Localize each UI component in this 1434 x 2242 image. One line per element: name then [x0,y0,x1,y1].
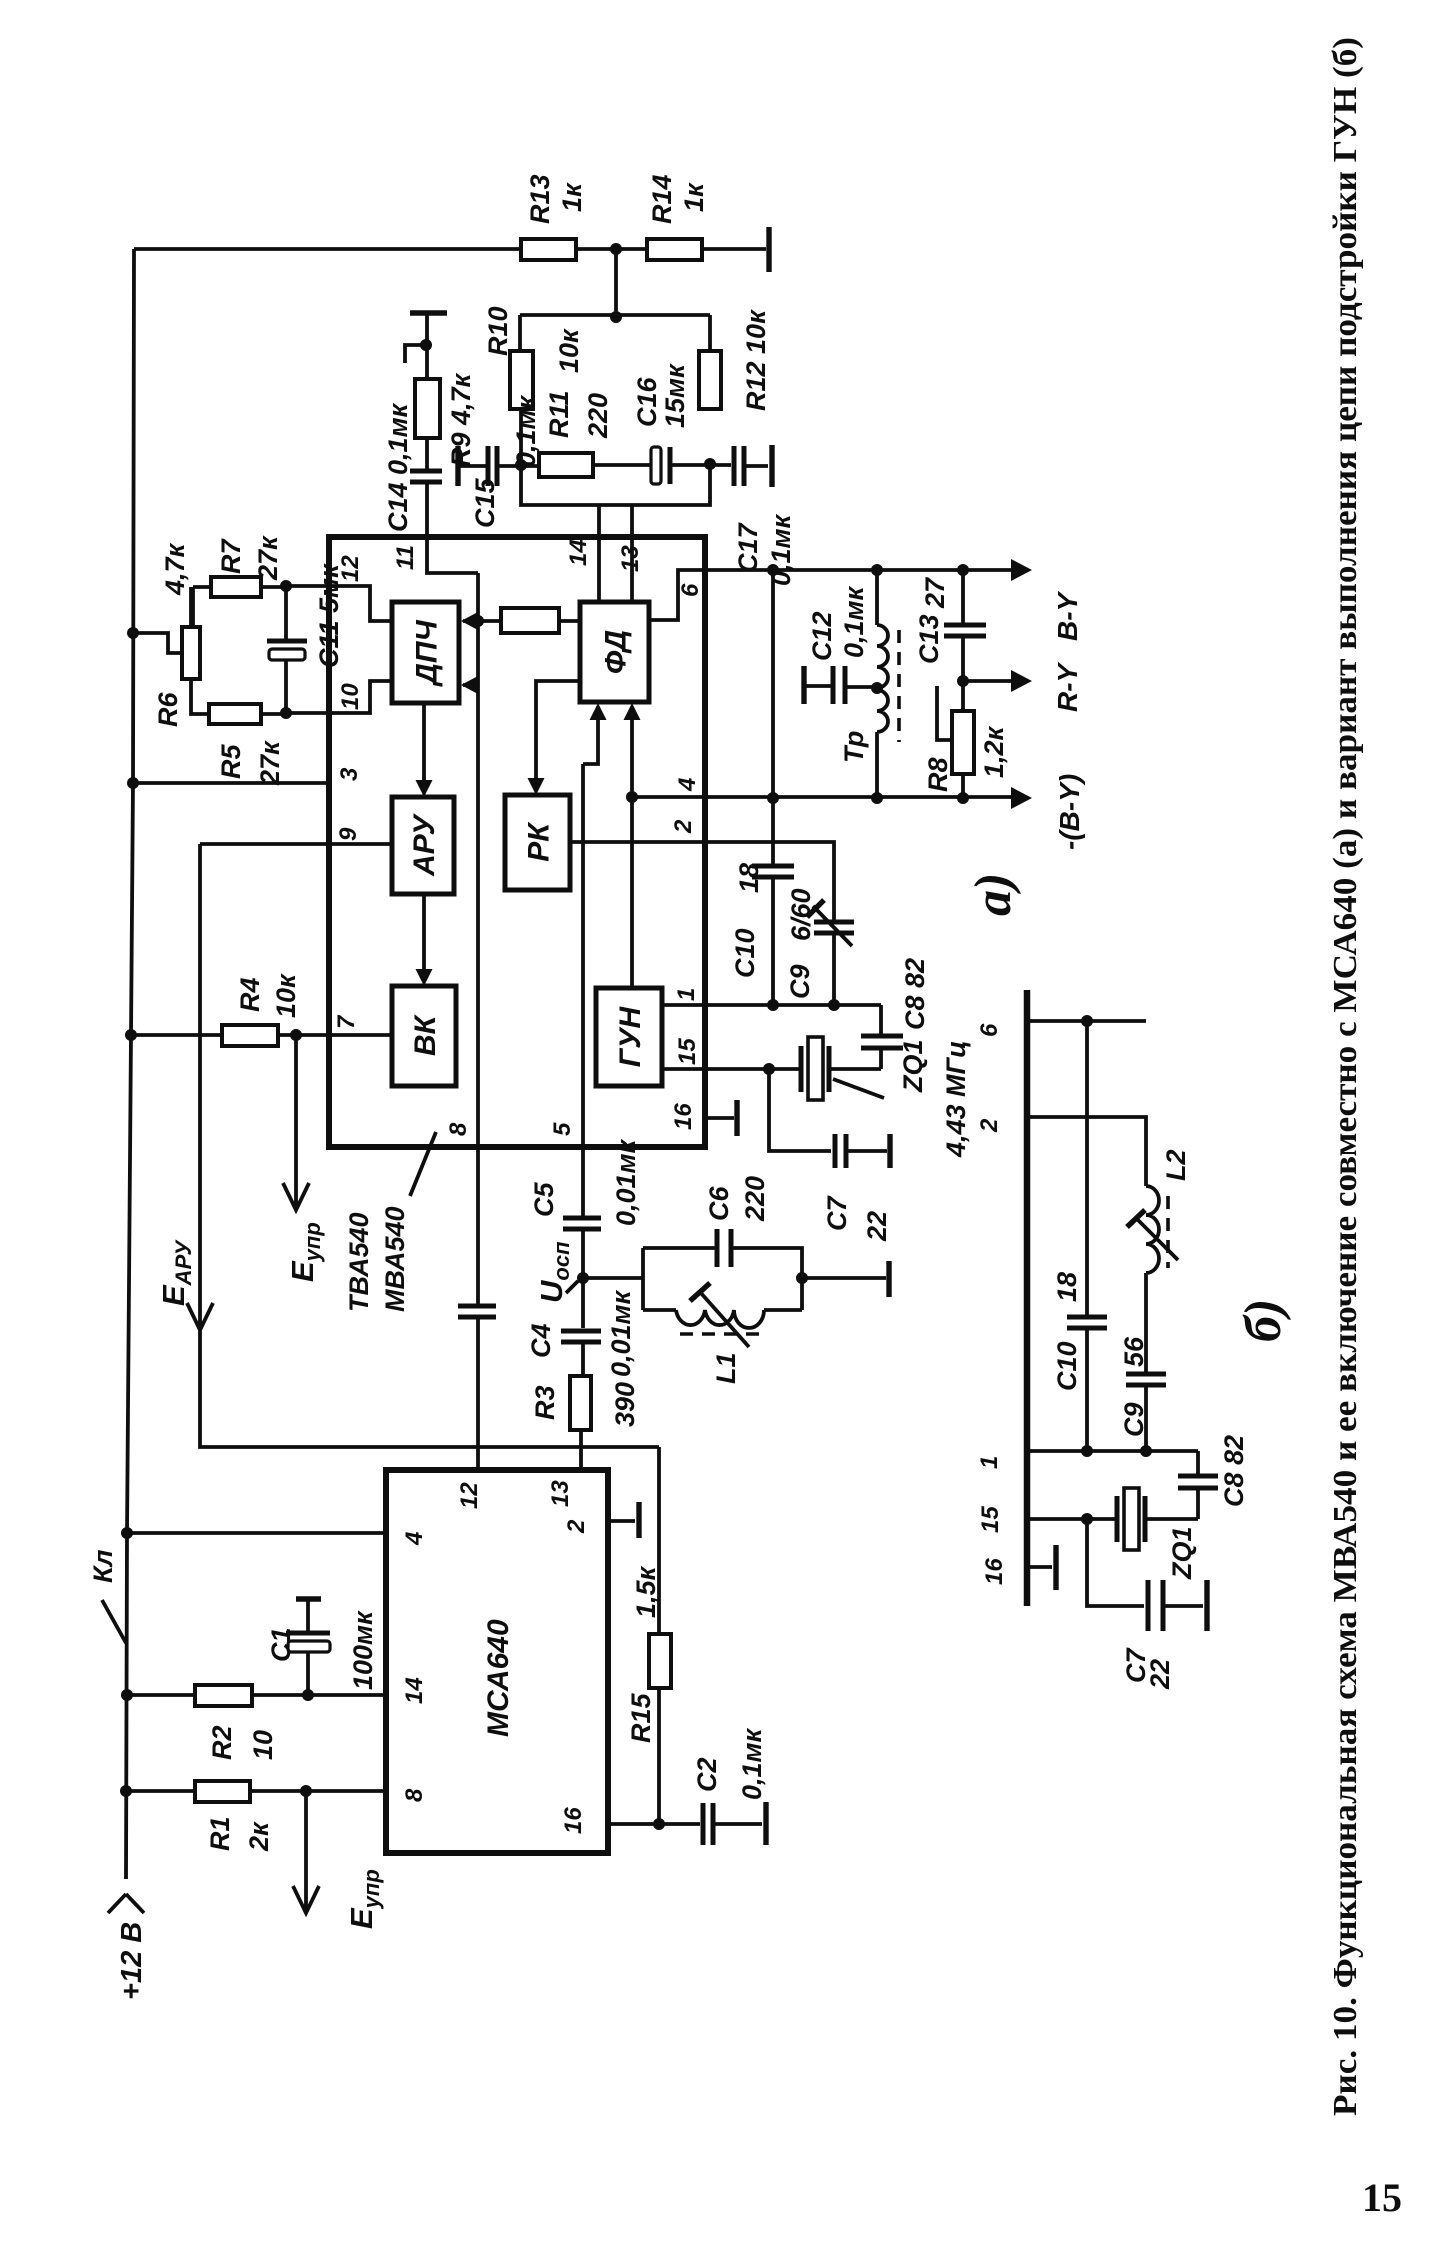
svg-text:L2: L2 [1161,1149,1191,1181]
svg-text:22: 22 [862,1211,892,1242]
svg-text:R14: R14 [647,174,677,224]
svg-text:R15: R15 [626,1692,656,1743]
svg-text:ВК: ВК [409,1013,442,1056]
svg-text:R13: R13 [525,174,555,224]
svg-text:C1: C1 [266,1627,296,1662]
svg-text:2: 2 [976,1118,1003,1133]
svg-text:27к: 27к [255,740,285,786]
svg-text:R10: R10 [483,306,513,356]
svg-text:C13: C13 [914,614,944,664]
svg-text:27: 27 [920,576,950,609]
svg-text:Рис. 10. Функциональная схема: Рис. 10. Функциональная схема МВА540 и е… [1327,37,1364,2116]
svg-text:C12: C12 [807,611,837,661]
svg-text:R4: R4 [235,977,265,1012]
svg-text:9: 9 [335,827,362,841]
svg-text:27к: 27к [253,535,283,581]
svg-text:R6: R6 [153,692,183,727]
svg-text:13: 13 [617,545,644,572]
svg-text:18: 18 [1052,1272,1082,1302]
svg-text:C14 0,1мк: C14 0,1мк [383,402,413,532]
svg-text:0,1мк: 0,1мк [766,513,796,586]
svg-text:C5: C5 [529,1182,559,1217]
svg-text:8: 8 [401,1788,428,1802]
svg-text:14: 14 [565,539,592,566]
svg-text:C10: C10 [1052,1341,1082,1391]
svg-text:100мк: 100мк [348,1610,378,1690]
svg-text:R7: R7 [216,538,246,574]
svg-text:ZQ1: ZQ1 [1167,1526,1197,1580]
svg-text:R3: R3 [530,1385,560,1420]
svg-text:15мк: 15мк [660,363,690,428]
svg-text:2к: 2к [244,1821,274,1852]
svg-text:Тр: Тр [839,731,869,763]
svg-text:C11 5мк: C11 5мк [314,563,344,668]
svg-text:C9: C9 [785,964,815,999]
svg-text:R2: R2 [207,1725,237,1760]
svg-text:10: 10 [337,683,364,710]
svg-text:ZQ1: ZQ1 [898,1039,928,1093]
svg-text:ФД: ФД [600,630,633,674]
svg-text:6: 6 [677,583,704,597]
svg-text:R12 10к: R12 10к [741,309,771,411]
svg-text:7: 7 [333,1014,360,1029]
svg-text:C4: C4 [526,1323,556,1358]
svg-text:а): а) [965,873,1022,916]
svg-text:МВА540: МВА540 [380,1206,410,1312]
svg-text:220: 220 [583,393,613,439]
svg-text:3: 3 [336,767,363,781]
svg-text:0,01мк: 0,01мк [606,1289,636,1377]
svg-text:C9: C9 [1119,1402,1149,1437]
svg-text:R5: R5 [216,744,246,779]
svg-text:4: 4 [674,778,701,792]
svg-text:РК: РК [523,821,556,862]
svg-text:0,01мк: 0,01мк [611,1138,641,1226]
svg-text:R9 4,7к: R9 4,7к [446,372,476,467]
svg-text:C6: C6 [704,1186,734,1221]
svg-text:-(B-Y): -(B-Y) [1054,774,1085,850]
svg-text:б): б) [1235,1299,1292,1342]
svg-text:R1: R1 [205,1816,235,1851]
svg-text:18: 18 [734,863,764,893]
svg-text:АРУ: АРУ [408,812,441,877]
svg-text:6: 6 [976,1023,1003,1037]
svg-text:B-Y: B-Y [1052,590,1083,641]
svg-text:C8 82: C8 82 [900,958,930,1030]
svg-text:1к: 1к [557,182,587,212]
svg-text:0,1мк: 0,1мк [511,394,541,467]
svg-text:15: 15 [977,1506,1004,1533]
svg-text:10к: 10к [271,973,301,1018]
svg-text:+12 В: +12 В [116,1922,148,2000]
svg-text:14: 14 [401,1677,428,1704]
svg-text:1,2к: 1,2к [979,725,1009,778]
svg-text:C2: C2 [692,1757,722,1792]
svg-text:1: 1 [673,988,700,1001]
svg-text:1,5к: 1,5к [631,1565,661,1618]
svg-text:16: 16 [981,1558,1008,1585]
svg-text:ГУН: ГУН [614,1005,647,1067]
svg-text:22: 22 [1145,1659,1175,1690]
svg-text:16: 16 [560,1807,587,1834]
svg-text:10к: 10к [554,328,584,373]
svg-text:13: 13 [547,1480,574,1507]
svg-text:6/60: 6/60 [786,888,816,941]
svg-text:5: 5 [549,1122,576,1136]
svg-text:C16: C16 [632,376,662,427]
svg-text:R11: R11 [544,390,574,438]
svg-text:C7: C7 [822,1195,852,1231]
svg-text:8: 8 [445,1122,472,1136]
svg-text:0,1мк: 0,1мк [737,1727,767,1800]
svg-text:C17: C17 [733,521,763,573]
svg-text:15: 15 [674,1038,701,1065]
svg-text:C8 82: C8 82 [1219,1435,1249,1507]
svg-text:МСА640: МСА640 [482,1619,515,1737]
svg-text:390: 390 [610,1382,640,1427]
svg-text:C10: C10 [730,928,760,978]
svg-text:1к: 1к [679,182,709,212]
svg-text:ТВА540: ТВА540 [344,1212,374,1312]
svg-text:220: 220 [740,1176,770,1222]
svg-text:0,1мк: 0,1мк [839,585,869,658]
svg-text:Кл: Кл [88,1549,118,1583]
svg-text:4,7к: 4,7к [160,542,190,596]
svg-text:L1: L1 [711,1352,741,1384]
svg-text:16: 16 [670,1103,697,1130]
svg-text:56: 56 [1119,1336,1149,1367]
svg-text:4,43 МГц: 4,43 МГц [941,1040,971,1158]
svg-text:R8: R8 [923,757,953,792]
svg-text:10: 10 [248,1730,278,1760]
svg-text:15: 15 [1362,2175,1402,2220]
svg-text:1: 1 [976,1456,1003,1469]
svg-text:2: 2 [563,1519,590,1534]
svg-text:ДПЧ: ДПЧ [411,620,444,688]
svg-text:C15: C15 [470,477,500,528]
svg-text:12: 12 [456,1482,483,1509]
svg-text:4: 4 [401,1532,428,1546]
svg-text:11: 11 [392,545,419,570]
svg-text:R-Y: R-Y [1052,661,1083,712]
svg-text:2: 2 [670,819,697,834]
